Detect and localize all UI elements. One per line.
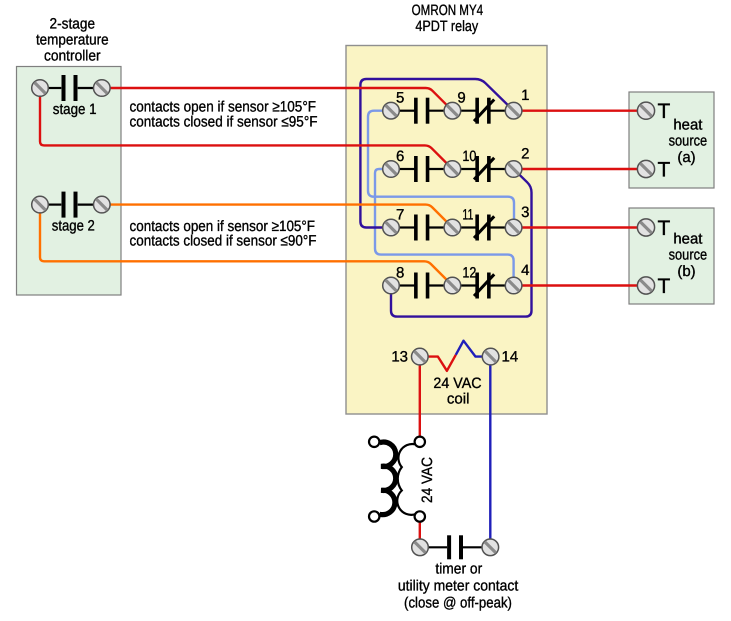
terminal heat a bottom: [637, 160, 654, 177]
box: heat source (b): [629, 208, 714, 304]
svg-text:2-stage: 2-stage: [50, 15, 96, 32]
svg-text:4: 4: [521, 262, 529, 279]
contact: stage 2 (NO): [48, 192, 94, 218]
terminal heat b top: [637, 219, 654, 236]
svg-text:(a): (a): [677, 149, 695, 166]
terminal stage 2 left: [32, 196, 49, 213]
terminal 6: [383, 161, 400, 178]
svg-text:source: source: [669, 247, 708, 264]
svg-text:8: 8: [396, 264, 404, 281]
svg-text:controller: controller: [44, 47, 101, 64]
contact: relay NC 9-1: [460, 98, 506, 124]
wire: red stage 1 upper to relay terminal 9: [110, 88, 453, 111]
wire: red transformer secondary to timer contact: [419, 521, 421, 541]
terminal stage 1 right: [94, 80, 111, 97]
svg-text:(b): (b): [677, 263, 695, 280]
wire: light blue jumper terminal 6 to terminal 4: [375, 169, 514, 286]
svg-text:T: T: [658, 100, 671, 123]
contact: relay NC 10-2: [460, 156, 506, 182]
svg-text:heat: heat: [673, 116, 703, 133]
svg-text:OMRON MY4: OMRON MY4: [412, 2, 484, 19]
box: heat source (a): [629, 92, 714, 188]
svg-text:stage 2: stage 2: [52, 218, 95, 235]
svg-text:stage 1: stage 1: [53, 101, 97, 118]
svg-text:3: 3: [521, 204, 529, 221]
label: 24 VAC coil: [433, 375, 481, 407]
svg-text:11: 11: [462, 206, 473, 223]
contact: relay NO 8-12: [399, 273, 445, 299]
svg-text:source: source: [669, 133, 708, 150]
svg-text:6: 6: [396, 148, 404, 165]
terminal 11: [444, 219, 461, 236]
svg-text:T: T: [658, 159, 671, 182]
wire: red terminal 3 to heat source b top: [514, 226, 646, 228]
svg-text:7: 7: [396, 206, 404, 223]
svg-text:T: T: [658, 275, 671, 298]
terminal heat a top: [637, 102, 654, 119]
terminal 14: [482, 348, 499, 365]
svg-text:contacts closed if sensor ≤90°: contacts closed if sensor ≤90°F: [130, 233, 317, 250]
terminal 9: [444, 102, 461, 119]
wire: red terminal 2 to heat source a bottom: [514, 168, 646, 170]
transformer T1 24 VAC: [369, 437, 425, 522]
svg-text:T: T: [658, 217, 671, 240]
terminal 10: [444, 161, 461, 178]
svg-text:13: 13: [391, 349, 408, 366]
contact: relay NO 7-11: [399, 215, 445, 241]
terminal heat b bottom: [637, 277, 654, 294]
wire: red stage 1 lower to relay terminal 10: [40, 96, 452, 169]
terminal timer right: [482, 539, 499, 556]
wire: red terminal 13 down to transformer secondary: [419, 360, 421, 438]
wire: light blue jumper terminal 5 to terminal 3: [368, 111, 514, 228]
label: relay title: [412, 2, 484, 35]
terminal 5: [383, 102, 400, 119]
label: controller title: [36, 15, 109, 64]
terminal stage 2 right: [94, 196, 111, 213]
svg-text:coil: coil: [447, 390, 470, 407]
svg-text:heat: heat: [673, 230, 703, 247]
terminal timer left: [412, 539, 429, 556]
wire: orange stage 2 lower to relay terminal 12: [40, 213, 452, 286]
terminal 4: [505, 277, 522, 294]
svg-text:utility meter contact: utility meter contact: [398, 578, 519, 595]
svg-text:12: 12: [462, 264, 476, 281]
contact: timer / utility meter (NO): [428, 535, 482, 559]
svg-text:24 VAC: 24 VAC: [419, 457, 436, 503]
terminal 1: [505, 102, 522, 119]
svg-text:10: 10: [462, 148, 476, 165]
svg-text:temperature: temperature: [36, 31, 109, 48]
terminal 12: [444, 277, 461, 294]
contact: relay NO 5-9: [399, 98, 445, 124]
contact: relay NC 12-4: [460, 273, 506, 299]
svg-text:2: 2: [521, 146, 529, 163]
label: heat source (a): [669, 116, 708, 166]
terminal stage 1 left: [32, 80, 49, 97]
coil zigzag blue half: [456, 341, 483, 357]
wire: navy jumper terminal 7 to terminal 1: [360, 79, 513, 228]
note: stage 1 conditions: [130, 99, 318, 131]
wire: red terminal 1 to heat source a top: [514, 109, 646, 111]
svg-text:contacts closed if sensor ≤95°: contacts closed if sensor ≤95°F: [130, 114, 318, 131]
wire: orange stage 2 upper to relay terminal 11: [110, 205, 453, 228]
svg-text:14: 14: [502, 349, 519, 366]
box: 2-stage temperature controller: [17, 67, 122, 296]
contact: relay NO 6-10: [399, 156, 445, 182]
terminal 8: [383, 277, 400, 294]
terminal 13: [412, 348, 429, 365]
terminal 3: [505, 219, 522, 236]
svg-text:1: 1: [521, 87, 529, 104]
contact: stage 1 (NO): [48, 75, 94, 101]
svg-text:(close @ off-peak): (close @ off-peak): [404, 595, 512, 612]
box: OMRON MY4 4PDT relay: [346, 46, 547, 415]
label: heat source (b): [669, 230, 708, 280]
svg-text:timer or: timer or: [435, 561, 482, 578]
wire: navy jumper terminal 8 to terminal 2: [391, 169, 532, 317]
svg-text:4PDT relay: 4PDT relay: [415, 18, 478, 35]
svg-text:5: 5: [396, 90, 404, 107]
contact: relay NC 11-3: [460, 215, 506, 241]
note: stage 2 conditions: [130, 218, 317, 249]
svg-text:9: 9: [457, 90, 465, 107]
wire: blue terminal 14 down to timer contact: [489, 360, 491, 540]
terminal 7: [383, 219, 400, 236]
label: timer note: [398, 561, 519, 612]
coil zigzag red half: [428, 355, 456, 371]
terminal 2: [505, 161, 522, 178]
wire: red terminal 4 to heat source b bottom: [514, 284, 646, 286]
